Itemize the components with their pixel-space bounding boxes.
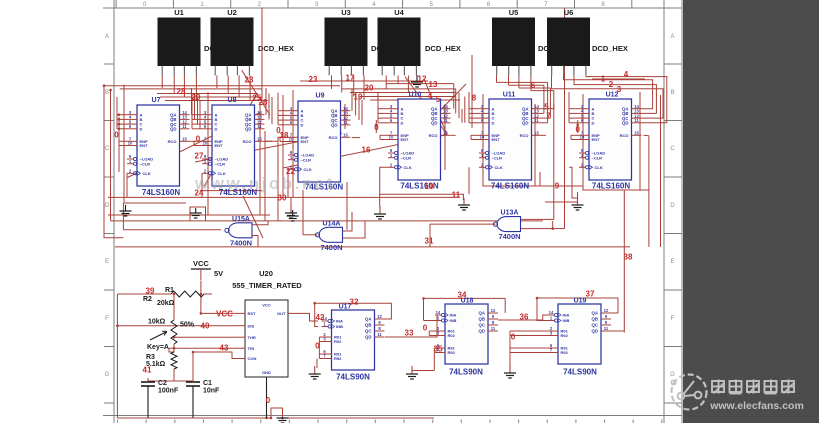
svg-text:D: D [140,126,143,131]
svg-text:D: D [401,120,404,125]
svg-text:10: 10 [389,135,394,140]
svg-text:U10: U10 [409,92,422,99]
svg-text:VCC: VCC [262,303,271,308]
svg-text:5: 5 [436,95,441,104]
svg-text:10nF: 10nF [203,388,220,395]
svg-text:C1: C1 [203,380,212,387]
svg-text:0: 0 [114,131,119,140]
svg-text:RCO: RCO [620,133,629,138]
svg-text:U14A: U14A [323,220,341,227]
svg-text:~CLR: ~CLR [215,161,226,166]
svg-text:11: 11 [491,326,496,331]
svg-text:www.elecfans.com: www.elecfans.com [709,400,804,412]
svg-text:16: 16 [362,146,371,155]
svg-text:100nF: 100nF [158,388,179,395]
svg-text:D: D [215,126,218,131]
svg-text:DCD_HEX: DCD_HEX [592,44,628,53]
svg-text:1: 1 [601,75,606,84]
svg-text:42: 42 [316,313,325,322]
svg-text:15: 15 [534,131,539,136]
svg-text:U20: U20 [259,269,273,278]
svg-text:5V: 5V [214,269,223,278]
svg-text:U9: U9 [316,93,325,100]
svg-text:U8: U8 [228,97,237,104]
svg-text:74LS160N: 74LS160N [142,188,180,197]
svg-text:U2: U2 [227,8,237,17]
svg-text:QB: QB [479,317,485,322]
svg-text:U7: U7 [152,97,161,104]
svg-text:10: 10 [289,137,294,142]
svg-text:ENT: ENT [140,143,149,148]
svg-text:11: 11 [257,124,262,129]
svg-text:74LS160N: 74LS160N [592,182,630,191]
svg-text:RCO: RCO [168,139,177,144]
svg-text:RST: RST [248,311,257,316]
svg-text:F: F [671,316,675,322]
svg-text:15: 15 [343,133,348,138]
svg-text:QD: QD [479,329,485,334]
svg-text:11: 11 [534,118,539,123]
svg-text:20kΩ: 20kΩ [157,300,175,307]
svg-text:DCD_HEX: DCD_HEX [258,44,294,53]
svg-text:INB: INB [563,318,570,323]
svg-text:U11: U11 [503,92,516,99]
svg-text:6: 6 [531,81,536,90]
svg-text:10: 10 [128,141,133,146]
svg-text:17: 17 [346,74,355,83]
svg-text:23: 23 [309,75,318,84]
svg-text:CLK: CLK [595,165,603,170]
svg-text:INA: INA [563,313,570,318]
svg-text:A: A [105,34,109,40]
svg-text:0: 0 [374,123,379,132]
svg-text:B: B [670,90,674,96]
svg-text:E: E [670,259,674,265]
svg-text:14: 14 [549,310,554,315]
svg-text:B: B [105,90,109,96]
svg-text:0: 0 [315,342,320,351]
svg-text:~CLR: ~CLR [492,155,503,160]
svg-text:43: 43 [220,344,229,353]
svg-text:GND: GND [262,370,271,375]
svg-text:INA: INA [450,313,457,318]
svg-text:13: 13 [429,80,438,89]
svg-text:7400N: 7400N [230,238,252,247]
svg-text:15: 15 [257,137,262,142]
svg-text:R3: R3 [146,354,155,361]
svg-text:7: 7 [546,112,551,121]
svg-text:ENT: ENT [301,139,310,144]
svg-text:QA: QA [592,311,598,316]
svg-text:G: G [105,372,110,378]
svg-text:74LS160N: 74LS160N [491,182,529,191]
svg-text:VCC: VCC [193,259,209,268]
svg-text:12: 12 [491,308,496,313]
svg-text:36: 36 [520,313,529,322]
svg-text:C: C [670,146,675,152]
svg-text:E: E [105,259,109,265]
svg-text:15: 15 [443,131,448,136]
svg-text:CLK: CLK [143,171,151,176]
svg-text:4: 4 [428,92,433,101]
svg-text:11: 11 [452,191,461,200]
svg-text:QD: QD [522,121,528,126]
svg-text:R02: R02 [334,339,342,344]
svg-text:ENT: ENT [592,137,601,142]
svg-text:R92: R92 [334,356,342,361]
svg-text:R92: R92 [448,350,456,355]
svg-text:RCO: RCO [243,139,252,144]
svg-text:RCO: RCO [429,133,438,138]
svg-text:11: 11 [443,118,448,123]
svg-text:R2: R2 [143,296,152,303]
svg-text:INA: INA [336,319,343,324]
svg-text:11: 11 [604,326,609,331]
svg-text:35: 35 [434,345,443,354]
svg-text:R02: R02 [561,333,569,338]
svg-text:7400N: 7400N [320,243,342,252]
svg-text:8: 8 [472,94,477,103]
svg-text:ENT: ENT [492,137,501,142]
svg-text:INB: INB [336,324,343,329]
svg-text:40: 40 [201,322,210,331]
svg-text:11: 11 [343,120,348,125]
svg-text:12: 12 [418,75,427,84]
svg-text:31: 31 [425,237,434,246]
svg-text:10: 10 [425,182,434,191]
svg-text:18: 18 [280,131,289,140]
svg-text:CLK: CLK [404,165,412,170]
svg-text:CLK: CLK [304,167,312,172]
svg-text:QD: QD [431,121,437,126]
svg-text:D: D [492,120,495,125]
svg-text:14: 14 [436,310,441,315]
svg-text:U6: U6 [564,8,574,17]
svg-text:VCC: VCC [216,310,233,319]
svg-text:~CLR: ~CLR [401,155,412,160]
svg-text:CON: CON [248,356,257,361]
svg-text:10kΩ: 10kΩ [148,319,166,326]
svg-text:CLK: CLK [495,165,503,170]
svg-text:Key=A: Key=A [147,344,169,351]
svg-text:QD: QD [592,329,598,334]
svg-text:U3: U3 [341,8,351,17]
svg-text:D: D [301,122,304,127]
svg-text:A: A [670,34,674,40]
svg-text:QD: QD [170,127,176,132]
svg-text:QC: QC [479,323,485,328]
svg-text:QB: QB [365,323,371,328]
svg-text:5: 5 [544,103,549,112]
svg-text:INB: INB [450,318,457,323]
svg-text:U5: U5 [509,8,519,17]
svg-text:U13A: U13A [501,210,519,217]
svg-text:19: 19 [354,93,363,102]
svg-text:2: 2 [609,80,614,89]
svg-text:QD: QD [331,123,337,128]
svg-text:10: 10 [480,135,485,140]
svg-text:37: 37 [586,290,595,299]
svg-text:QD: QD [245,127,251,132]
svg-text:74LS90N: 74LS90N [449,368,483,377]
svg-text:38: 38 [624,253,633,262]
svg-text:15: 15 [182,137,187,142]
svg-text:34: 34 [458,291,467,300]
svg-text:20: 20 [365,84,374,93]
svg-text:~CLR: ~CLR [140,161,151,166]
svg-text:U1: U1 [174,8,184,17]
svg-text:R92: R92 [561,350,569,355]
svg-text:~CLR: ~CLR [301,157,312,162]
svg-text:0: 0 [196,135,201,144]
svg-text:3: 3 [617,85,622,94]
svg-text:15: 15 [634,131,639,136]
svg-text:10: 10 [203,141,208,146]
svg-text:R1: R1 [165,287,174,294]
svg-text:QA: QA [365,317,371,322]
svg-text:41: 41 [143,366,152,375]
svg-text:27: 27 [195,152,204,161]
svg-text:0: 0 [511,333,516,342]
svg-text:~CLR: ~CLR [592,155,603,160]
svg-text:11: 11 [377,332,382,337]
svg-text:4: 4 [624,70,629,79]
svg-text:7400N: 7400N [498,232,520,241]
svg-text:D: D [105,203,110,209]
svg-text:33: 33 [405,329,414,338]
svg-text:12: 12 [377,314,382,319]
svg-text:R02: R02 [448,333,456,338]
svg-text:23: 23 [245,76,254,85]
svg-text:TRI: TRI [248,346,254,351]
svg-text:26: 26 [259,98,268,107]
svg-text:D: D [592,120,595,125]
svg-text:9: 9 [555,182,560,191]
svg-text:DCD_HEX: DCD_HEX [425,44,461,53]
svg-text:39: 39 [146,287,155,296]
svg-text:OUT: OUT [277,311,286,316]
svg-text:555_TIMER_RATED: 555_TIMER_RATED [232,281,302,290]
svg-text:QA: QA [479,311,485,316]
svg-text:74LS90N: 74LS90N [336,373,370,382]
svg-text:C: C [105,146,110,152]
svg-text:0: 0 [266,396,271,405]
svg-text:THR: THR [248,335,256,340]
svg-text:QB: QB [592,317,598,322]
svg-text:RCO: RCO [520,133,529,138]
svg-text:U19: U19 [574,298,587,305]
svg-text:QD: QD [622,121,628,126]
svg-text:D: D [670,203,675,209]
svg-text:U15A: U15A [232,216,250,223]
svg-text:30: 30 [278,194,287,203]
svg-text:0: 0 [423,324,428,333]
svg-text:QC: QC [365,329,371,334]
svg-text:50%: 50% [180,322,195,329]
svg-text:28: 28 [177,87,186,96]
svg-text:ENT: ENT [215,143,224,148]
svg-text:U4: U4 [394,8,404,17]
svg-text:C2: C2 [158,380,167,387]
svg-text:29: 29 [192,93,201,102]
svg-text:QD: QD [365,335,371,340]
svg-text:10: 10 [580,135,585,140]
svg-text:ENT: ENT [401,137,410,142]
svg-text:QC: QC [592,323,598,328]
svg-text:12: 12 [604,308,609,313]
svg-text:F: F [105,316,109,322]
svg-text:11: 11 [634,118,639,123]
svg-text:11: 11 [182,124,187,129]
svg-text:www.njob.net: www.njob.net [194,174,335,193]
svg-text:0: 0 [575,125,580,134]
svg-text:DIS: DIS [248,323,255,328]
svg-text:G: G [670,372,675,378]
svg-text:RCO: RCO [329,135,338,140]
svg-text:74LS90N: 74LS90N [563,368,597,377]
svg-text:32: 32 [350,298,359,307]
